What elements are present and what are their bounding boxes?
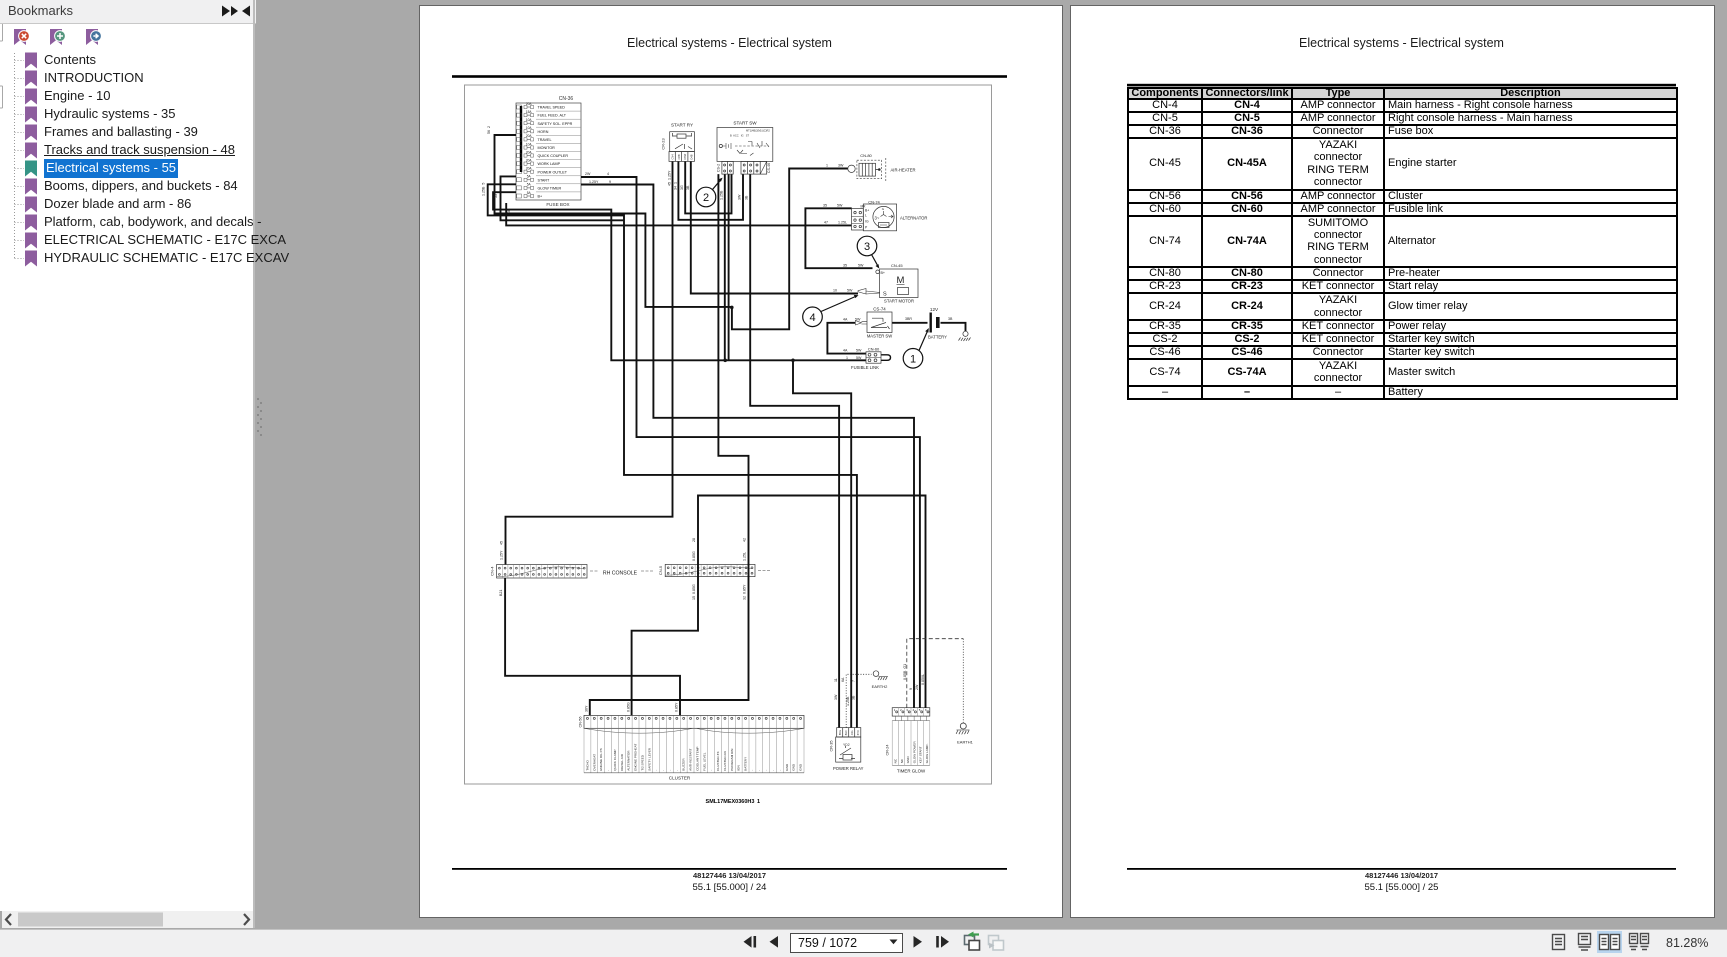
schematic frame (465, 85, 992, 784)
wire CN-4 pin 2 to cluster (505, 578, 680, 715)
sidebar tab notches (0, 24, 3, 108)
wire fuse B+ west to fusible link pin 1 (493, 192, 866, 360)
svg-text:2W: 2W (915, 684, 919, 690)
svg-text:CR-23: CR-23 (661, 138, 666, 149)
sidebar bookmark rows (44, 52, 96, 69)
svg-text:6TO: 6TO (856, 730, 860, 735)
splitter grip (257, 398, 262, 436)
svg-text:B+: B+ (538, 195, 543, 199)
junction node heater feed / CS-2 (730, 306, 734, 310)
wire fuse START west branch (501, 176, 625, 220)
svg-text:-: - (709, 770, 713, 771)
svg-text:2: 2 (703, 192, 709, 204)
svg-text:-: - (771, 770, 775, 771)
svg-text:L: L (865, 214, 867, 218)
svg-text:HORN: HORN (538, 130, 549, 134)
cluster CN-56 (579, 715, 805, 780)
svg-text:5W: 5W (858, 264, 864, 268)
svg-text:GND: GND (906, 756, 910, 764)
svg-text:TRAVEL SPEED: TRAVEL SPEED (538, 106, 566, 110)
alternator CN-74 (852, 200, 928, 231)
svg-text:MT1(4B)2(M)1(C)R2: MT1(4B)2(M)1(C)R2 (746, 129, 770, 133)
svg-text:56 2: 56 2 (487, 126, 491, 134)
svg-text:1.25Y: 1.25Y (500, 550, 504, 560)
svg-text:IGN: IGN (737, 765, 741, 771)
fusible link loop (881, 355, 891, 361)
svg-text:CN-45: CN-45 (891, 263, 903, 268)
svg-text:GND: GND (785, 763, 789, 771)
fusible link CN-60 (851, 347, 881, 371)
svg-text:YD2: YD2 (843, 743, 850, 747)
svg-text:28: 28 (692, 538, 696, 542)
svg-text:KEY START: KEY START (919, 746, 923, 763)
svg-text:NC: NC (894, 758, 898, 763)
svg-text:3B: 3B (948, 317, 953, 321)
svg-text:EARTH2: EARTH2 (872, 684, 888, 689)
bottom toolbar nav icons (744, 936, 950, 948)
callout circle 3 (857, 236, 879, 268)
glow timer relay CR-24 (886, 708, 930, 774)
earth symbol EARTH1 with dashed run (907, 639, 974, 745)
svg-text:3G: 3G (680, 185, 684, 190)
svg-text:C8B: C8B (677, 154, 681, 159)
earth symbol battery ground (959, 331, 971, 341)
svg-text:34 1: 34 1 (673, 182, 677, 190)
svg-text:-: - (606, 770, 610, 771)
svg-text:IG: IG (865, 220, 869, 224)
svg-text:START MOTOR: START MOTOR (884, 299, 914, 304)
svg-text:15 0.85G: 15 0.85G (692, 584, 696, 600)
svg-text:10: 10 (833, 289, 837, 293)
svg-text:0.850L: 0.850L (921, 674, 925, 685)
wire 47 1.25L to alternator pin (506, 203, 851, 225)
svg-text:5A: 5A (527, 191, 532, 195)
svg-text:3: 3 (864, 241, 870, 253)
svg-text:20A: 20A (526, 167, 533, 171)
previous view icon (965, 932, 980, 951)
left page (419, 5, 1063, 918)
svg-text:3W: 3W (838, 164, 844, 168)
junction node fusible link / CS-2 (723, 359, 727, 363)
wire master switch to battery (892, 322, 928, 324)
wire start relay pin 4 to starter solenoid S (691, 161, 858, 293)
svg-text:5A: 5A (527, 175, 532, 179)
svg-text:1: 1 (757, 799, 760, 805)
svg-text:OVERHEAT: OVERHEAT (592, 754, 596, 771)
svg-text:1: 1 (910, 354, 916, 366)
junction node fusible link / power relay (791, 359, 795, 363)
svg-text:5W: 5W (855, 318, 861, 322)
svg-text:NC: NC (900, 758, 904, 763)
wire fuse GLOW east to timer glow pin 4 (581, 185, 914, 708)
power relay CR-35 (830, 728, 864, 771)
svg-text:CN-4: CN-4 (490, 566, 495, 576)
svg-text:-: - (757, 770, 761, 771)
svg-text:D4B: D4B (689, 154, 693, 159)
svg-text:1.25B: 1.25B (846, 696, 850, 706)
svg-text:5A: 5A (527, 183, 532, 187)
svg-text:BATTERY: BATTERY (744, 757, 748, 771)
pre-heater CN-80 air heater (848, 153, 916, 181)
svg-text:3B: 3B (745, 195, 749, 200)
svg-text:3BR: 3BR (905, 317, 912, 321)
master switch CS-74 (856, 307, 893, 339)
svg-text:32 0.85Y: 32 0.85Y (743, 584, 747, 600)
svg-text:CN-80: CN-80 (860, 153, 872, 158)
svg-text:CR-35: CR-35 (830, 741, 834, 752)
svg-text:CN4: CN4 (671, 154, 675, 160)
svg-text:-: - (668, 770, 672, 771)
wire key switch to CN-5 pin 14 and cluster (590, 174, 749, 715)
svg-text:-: - (661, 770, 665, 771)
svg-text:3W: 3W (834, 694, 838, 700)
svg-text:3B: 3B (507, 208, 511, 213)
svg-text:SAFETY SOL. EPPR: SAFETY SOL. EPPR (538, 122, 573, 126)
svg-text:TACHO: TACHO (585, 760, 589, 771)
toolbar (0, 929, 1727, 957)
svg-text:ENGINE PREHEAT: ENGINE PREHEAT (634, 744, 638, 771)
svg-text:1.25Y: 1.25Y (589, 180, 599, 184)
svg-text:CR-24: CR-24 (886, 745, 890, 756)
bookmark flags (25, 53, 37, 267)
svg-text:3B: 3B (686, 185, 690, 190)
svg-text:ANTI-RESTART: ANTI-RESTART (689, 748, 693, 770)
drawing code (706, 799, 761, 805)
svg-text:0.85Y: 0.85Y (675, 702, 679, 712)
svg-text:GND: GND (792, 763, 796, 771)
svg-text:6A: 6A (841, 677, 845, 682)
svg-text:B+: B+ (881, 271, 886, 275)
bookmark tree dotted lines (15, 53, 25, 259)
wire timer glow pin 6 to CN-5 pin 8 and cluster (632, 496, 926, 716)
svg-text:35: 35 (843, 264, 847, 268)
header collapse arrows (222, 6, 250, 17)
wire start relay pin 2 to key switch column (678, 161, 743, 219)
callout circle 4 (803, 295, 859, 327)
svg-text:PROGRAM D/N: PROGRAM D/N (730, 749, 734, 771)
earth symbol EARTH2 (846, 671, 888, 728)
svg-text:3B: 3B (852, 695, 856, 700)
svg-text:CN-5: CN-5 (658, 565, 663, 575)
wire CS-46 pin 2 to power relay pin 1 (750, 174, 839, 728)
svg-text:B21: B21 (499, 590, 503, 596)
starter key switch CS-2 / CS-46 (716, 121, 773, 175)
svg-text:CS-46: CS-46 (767, 163, 771, 173)
svg-text:20A: 20A (526, 102, 533, 106)
svg-text:CLUSTER-RX: CLUSTER-RX (723, 751, 727, 771)
svg-text:DIESEL AID: DIESEL AID (620, 753, 624, 771)
svg-text:45 1.25Y: 45 1.25Y (668, 170, 672, 186)
svg-text:B+: B+ (865, 209, 869, 213)
svg-text:-: - (764, 770, 768, 771)
RH CONSOLE label (590, 571, 770, 577)
svg-text:8H0: 8H0 (844, 730, 848, 735)
svg-text:ALTERNATOR: ALTERNATOR (900, 216, 927, 221)
sidebar top toolbar icons (14, 29, 101, 45)
svg-text:3W: 3W (738, 194, 742, 200)
svg-text:10A: 10A (526, 118, 533, 122)
svg-text:9: 9 (609, 180, 611, 184)
svg-text:10A: 10A (526, 126, 533, 130)
svg-text:35: 35 (823, 204, 827, 208)
svg-text:20A: 20A (526, 150, 533, 154)
svg-text:P: P (865, 226, 868, 230)
right page component table (1127, 87, 1678, 400)
svg-text:TIMER GLOW: TIMER GLOW (897, 769, 926, 774)
svg-text:CS-74: CS-74 (873, 307, 886, 312)
wire start relay pin 1 to CN-4 pin 2 (506, 161, 673, 564)
wire fuse GLOW TIMER west to power relay pin 3 (488, 184, 857, 727)
svg-text:9: 9 (909, 688, 913, 690)
svg-text:-: - (750, 770, 754, 771)
page titles (452, 36, 1007, 50)
svg-text:AIR-HEATER: AIR-HEATER (891, 168, 916, 173)
connector CN-4 (490, 565, 588, 579)
wire start relay pin 3 to CS-2 (685, 161, 731, 213)
svg-text:5W: 5W (856, 349, 862, 353)
svg-text:MASTER SW: MASTER SW (867, 334, 892, 339)
wire fusible link node to power relay pin 2 (793, 360, 851, 727)
fuse box bus bar (520, 106, 522, 172)
svg-text:POWER OUTLET: POWER OUTLET (538, 170, 568, 174)
svg-text:3~: 3~ (875, 216, 880, 221)
svg-text:1.25B 5: 1.25B 5 (482, 183, 486, 196)
svg-text:FUEL FEED. ALT: FUEL FEED. ALT (538, 114, 567, 118)
svg-text:1: 1 (846, 356, 848, 360)
svg-text:POWER RELAY: POWER RELAY (833, 766, 864, 771)
svg-text:BUZZER: BUZZER (682, 758, 686, 771)
svg-text:1.25L: 1.25L (838, 221, 847, 225)
svg-text:CLUSTER: CLUSTER (669, 776, 691, 781)
svg-text:TRAVEL: TRAVEL (538, 138, 552, 142)
svg-text:5W: 5W (856, 356, 862, 360)
svg-text:7: 7 (852, 680, 856, 682)
svg-text:J3G: J3G (850, 730, 854, 735)
svg-text:CS-2: CS-2 (716, 164, 720, 172)
svg-text:4A: 4A (843, 349, 848, 353)
svg-text:53 1: 53 1 (494, 191, 498, 198)
sidebar horizontal scrollbar (6, 913, 249, 927)
svg-text:1.25B: 1.25B (720, 190, 724, 200)
svg-text:CN-36: CN-36 (559, 96, 574, 102)
svg-text:1.25L: 1.25L (743, 552, 747, 561)
wire alternator B+ to starter B+ (805, 208, 872, 268)
svg-text:GLOW TIMER: GLOW TIMER (538, 187, 562, 191)
callout circle 2 (696, 178, 722, 207)
svg-text:15A: 15A (526, 110, 533, 114)
svg-text:10A: 10A (526, 142, 533, 146)
svg-text:MONITOR: MONITOR (538, 146, 556, 150)
svg-text:CLUSTER-TX: CLUSTER-TX (716, 751, 720, 770)
svg-text:T/2 SPEED: T/2 SPEED (640, 754, 644, 771)
svg-text:GLOW LAMP-: GLOW LAMP- (925, 744, 929, 764)
svg-text:FUSIBLE LINK: FUSIBLE LINK (851, 365, 879, 370)
page footers (452, 871, 1007, 880)
svg-text:FUSE BOX: FUSE BOX (546, 202, 569, 207)
svg-text:GND: GND (799, 763, 803, 771)
svg-text:EARTH1: EARTH1 (957, 740, 973, 745)
next view icon (disabled) (989, 936, 1004, 951)
svg-text:START SW: START SW (733, 121, 757, 126)
battery 12V (928, 307, 947, 340)
start relay CR-23 (661, 123, 695, 162)
svg-text:CN-56: CN-56 (579, 717, 583, 728)
page 2 header rule (1127, 84, 1676, 87)
svg-text:QUICK CLAMP: QUICK CLAMP (613, 749, 617, 770)
svg-text:4: 4 (607, 172, 609, 176)
svg-text:4A: 4A (843, 318, 848, 322)
svg-text:42: 42 (743, 538, 747, 542)
svg-text:START RY: START RY (671, 123, 693, 128)
connector CN-5 (658, 564, 755, 576)
sidebar (0, 0, 256, 24)
svg-text:4: 4 (809, 312, 815, 324)
svg-text:CN-60: CN-60 (868, 347, 880, 352)
svg-text:5W: 5W (847, 289, 853, 293)
svg-text:-: - (654, 770, 658, 771)
svg-text:START: START (538, 178, 550, 182)
svg-text:WORK LAMP: WORK LAMP (538, 162, 561, 166)
svg-text:GLOW POWER: GLOW POWER (912, 741, 916, 764)
svg-text:-: - (778, 770, 782, 771)
svg-text:B ACC IG ST: B ACC IG ST (730, 134, 749, 138)
svg-text:SML17MEX0360H3: SML17MEX0360H3 (706, 799, 755, 805)
svg-text:G: G (882, 207, 885, 211)
page 2 footer rule (1127, 868, 1676, 870)
svg-text:5W: 5W (837, 204, 843, 208)
wire fuse TRAVEL to switch column (495, 135, 848, 329)
wire fuse START east to timer glow pin 5 (581, 177, 920, 708)
callout circle 1 (903, 328, 929, 368)
wire battery to earth (941, 323, 966, 331)
svg-text:BATTERY: BATTERY (928, 335, 947, 340)
page 1 header rule (452, 75, 1007, 78)
svg-text:11: 11 (834, 678, 838, 682)
svg-text:ALTERNATOR: ALTERNATOR (627, 750, 631, 771)
svg-text:-: - (675, 770, 679, 771)
svg-text:0.85B G1: 0.85B G1 (903, 664, 907, 680)
svg-text:QUICK COUPLER: QUICK COUPLER (538, 154, 569, 158)
svg-text:SAFETY LEVER: SAFETY LEVER (647, 747, 651, 771)
wire CS-2 pin 1 to fusible link node (724, 174, 726, 360)
svg-text:RH CONSOLE: RH CONSOLE (603, 571, 638, 577)
svg-text:FUEL LEVEL: FUEL LEVEL (702, 752, 706, 771)
svg-text:47: 47 (824, 221, 828, 225)
svg-text:COOLANT TEMP: COOLANT TEMP (695, 747, 699, 771)
svg-text:0.85G: 0.85G (692, 551, 696, 561)
engine starter CN-45 start motor (858, 263, 918, 304)
svg-text:1: 1 (826, 164, 828, 168)
fuse box CN-36 (516, 96, 581, 207)
right page (1070, 5, 1715, 918)
page 1 footer rule (452, 868, 1007, 870)
wire master switch to fusible link (827, 323, 866, 354)
svg-text:2W: 2W (585, 172, 591, 176)
wire CS-2 pin 2 to fusible link line (728, 174, 730, 360)
svg-text:S: S (883, 292, 887, 298)
svg-text:ENGINE OIL PS: ENGINE OIL PS (599, 748, 603, 771)
fuse box row details (517, 102, 581, 199)
svg-text:0.85G: 0.85G (626, 702, 630, 712)
svg-text:20A: 20A (526, 134, 533, 138)
svg-text:D5W: D5W (683, 153, 687, 159)
svg-text:36Y: 36Y (585, 705, 589, 712)
svg-text:20A: 20A (526, 158, 533, 162)
svg-text:12V: 12V (930, 307, 939, 312)
page view mode icons (1553, 934, 1591, 951)
svg-text:45: 45 (500, 541, 504, 545)
svg-text:B5G: B5G (838, 730, 842, 735)
